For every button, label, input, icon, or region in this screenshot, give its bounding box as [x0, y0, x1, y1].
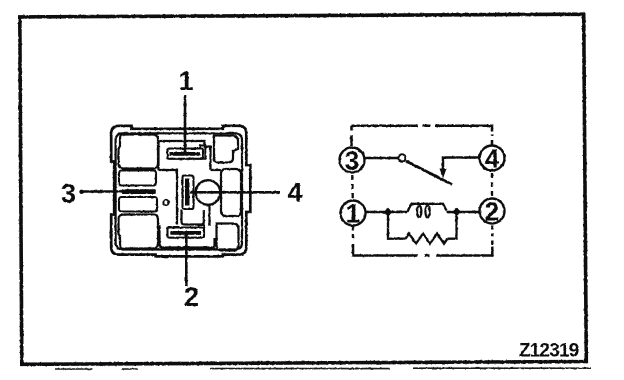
pin 2 terminal bar: [171, 231, 202, 235]
svg-text:Z12319: Z12319: [519, 341, 579, 362]
svg-text:3: 3: [61, 179, 76, 209]
central cavity bottom section: [160, 226, 215, 248]
switch pivot: [398, 154, 405, 161]
pin 1 slot tab: [200, 146, 205, 159]
corner pocket bottom-left: [119, 215, 159, 249]
svg-text:3: 3: [345, 146, 359, 176]
svg-text:4: 4: [287, 178, 302, 208]
leader line pin 1: [184, 95, 187, 153]
pin 4 terminal bar: [185, 179, 190, 206]
coil: [407, 204, 447, 212]
cavity step right: [211, 169, 222, 171]
svg-text:2: 2: [485, 197, 499, 227]
leader line pin 4: [190, 191, 280, 194]
leader 3 start blob: [79, 190, 83, 194]
pin 2 slot tab: [199, 225, 205, 238]
wire 3 to pivot: [366, 157, 398, 160]
dashes between terminal 3 and 1: [351, 175, 354, 198]
wire 1 to junction: [367, 211, 408, 214]
pin 1 slot: [168, 149, 204, 159]
cavity notch under slot 4: [182, 210, 204, 225]
pocket middle-right: [221, 169, 241, 216]
leader line pin 3: [80, 190, 150, 193]
corner pocket top-left: [119, 135, 159, 169]
terminal circle 2: [480, 199, 505, 224]
svg-text:4: 4: [485, 144, 500, 174]
actuator arrow: [440, 169, 447, 179]
pin 2 slot: [168, 228, 205, 238]
frame shadow line: [55, 367, 591, 370]
cavity below circle: [208, 205, 210, 227]
svg-text:1: 1: [346, 199, 360, 229]
small index dot: [163, 200, 168, 205]
svg-text:1: 1: [178, 66, 193, 96]
wire coil to 2: [447, 211, 480, 214]
cavity step left: [159, 170, 178, 225]
schematic box top border: [352, 126, 493, 146]
pin 3 lower slot: [119, 197, 157, 212]
relay connector body outer outline: [111, 126, 250, 257]
leader line pin 2: [185, 233, 188, 286]
relay connector body inner outline: [116, 133, 242, 249]
pin 3 terminal bar: [122, 189, 156, 194]
dashes between terminal 4 and 2: [491, 173, 493, 196]
pin 4 vertical slot: [183, 176, 194, 210]
pin 1 terminal bar: [170, 152, 201, 156]
switch blade: [406, 161, 452, 185]
screw tower circle: [196, 180, 221, 205]
terminal circle 4: [480, 146, 505, 171]
pin 3 upper slot: [119, 171, 156, 186]
resistor branch left drop: [388, 214, 406, 239]
corner pocket top-right: [214, 136, 238, 163]
terminal circle 1: [341, 201, 366, 226]
resistor branch right rise: [448, 214, 457, 239]
svg-text:2: 2: [184, 282, 199, 312]
terminal circle 3: [340, 148, 365, 173]
schematic box bottom border: [353, 226, 492, 256]
wire 4 to actuator: [443, 158, 479, 171]
resistor zigzag: [406, 234, 448, 244]
junction dot left: [384, 208, 393, 217]
central cavity top section: [159, 141, 211, 170]
junction dot right: [452, 208, 460, 216]
corner pocket bottom-right: [217, 224, 239, 251]
